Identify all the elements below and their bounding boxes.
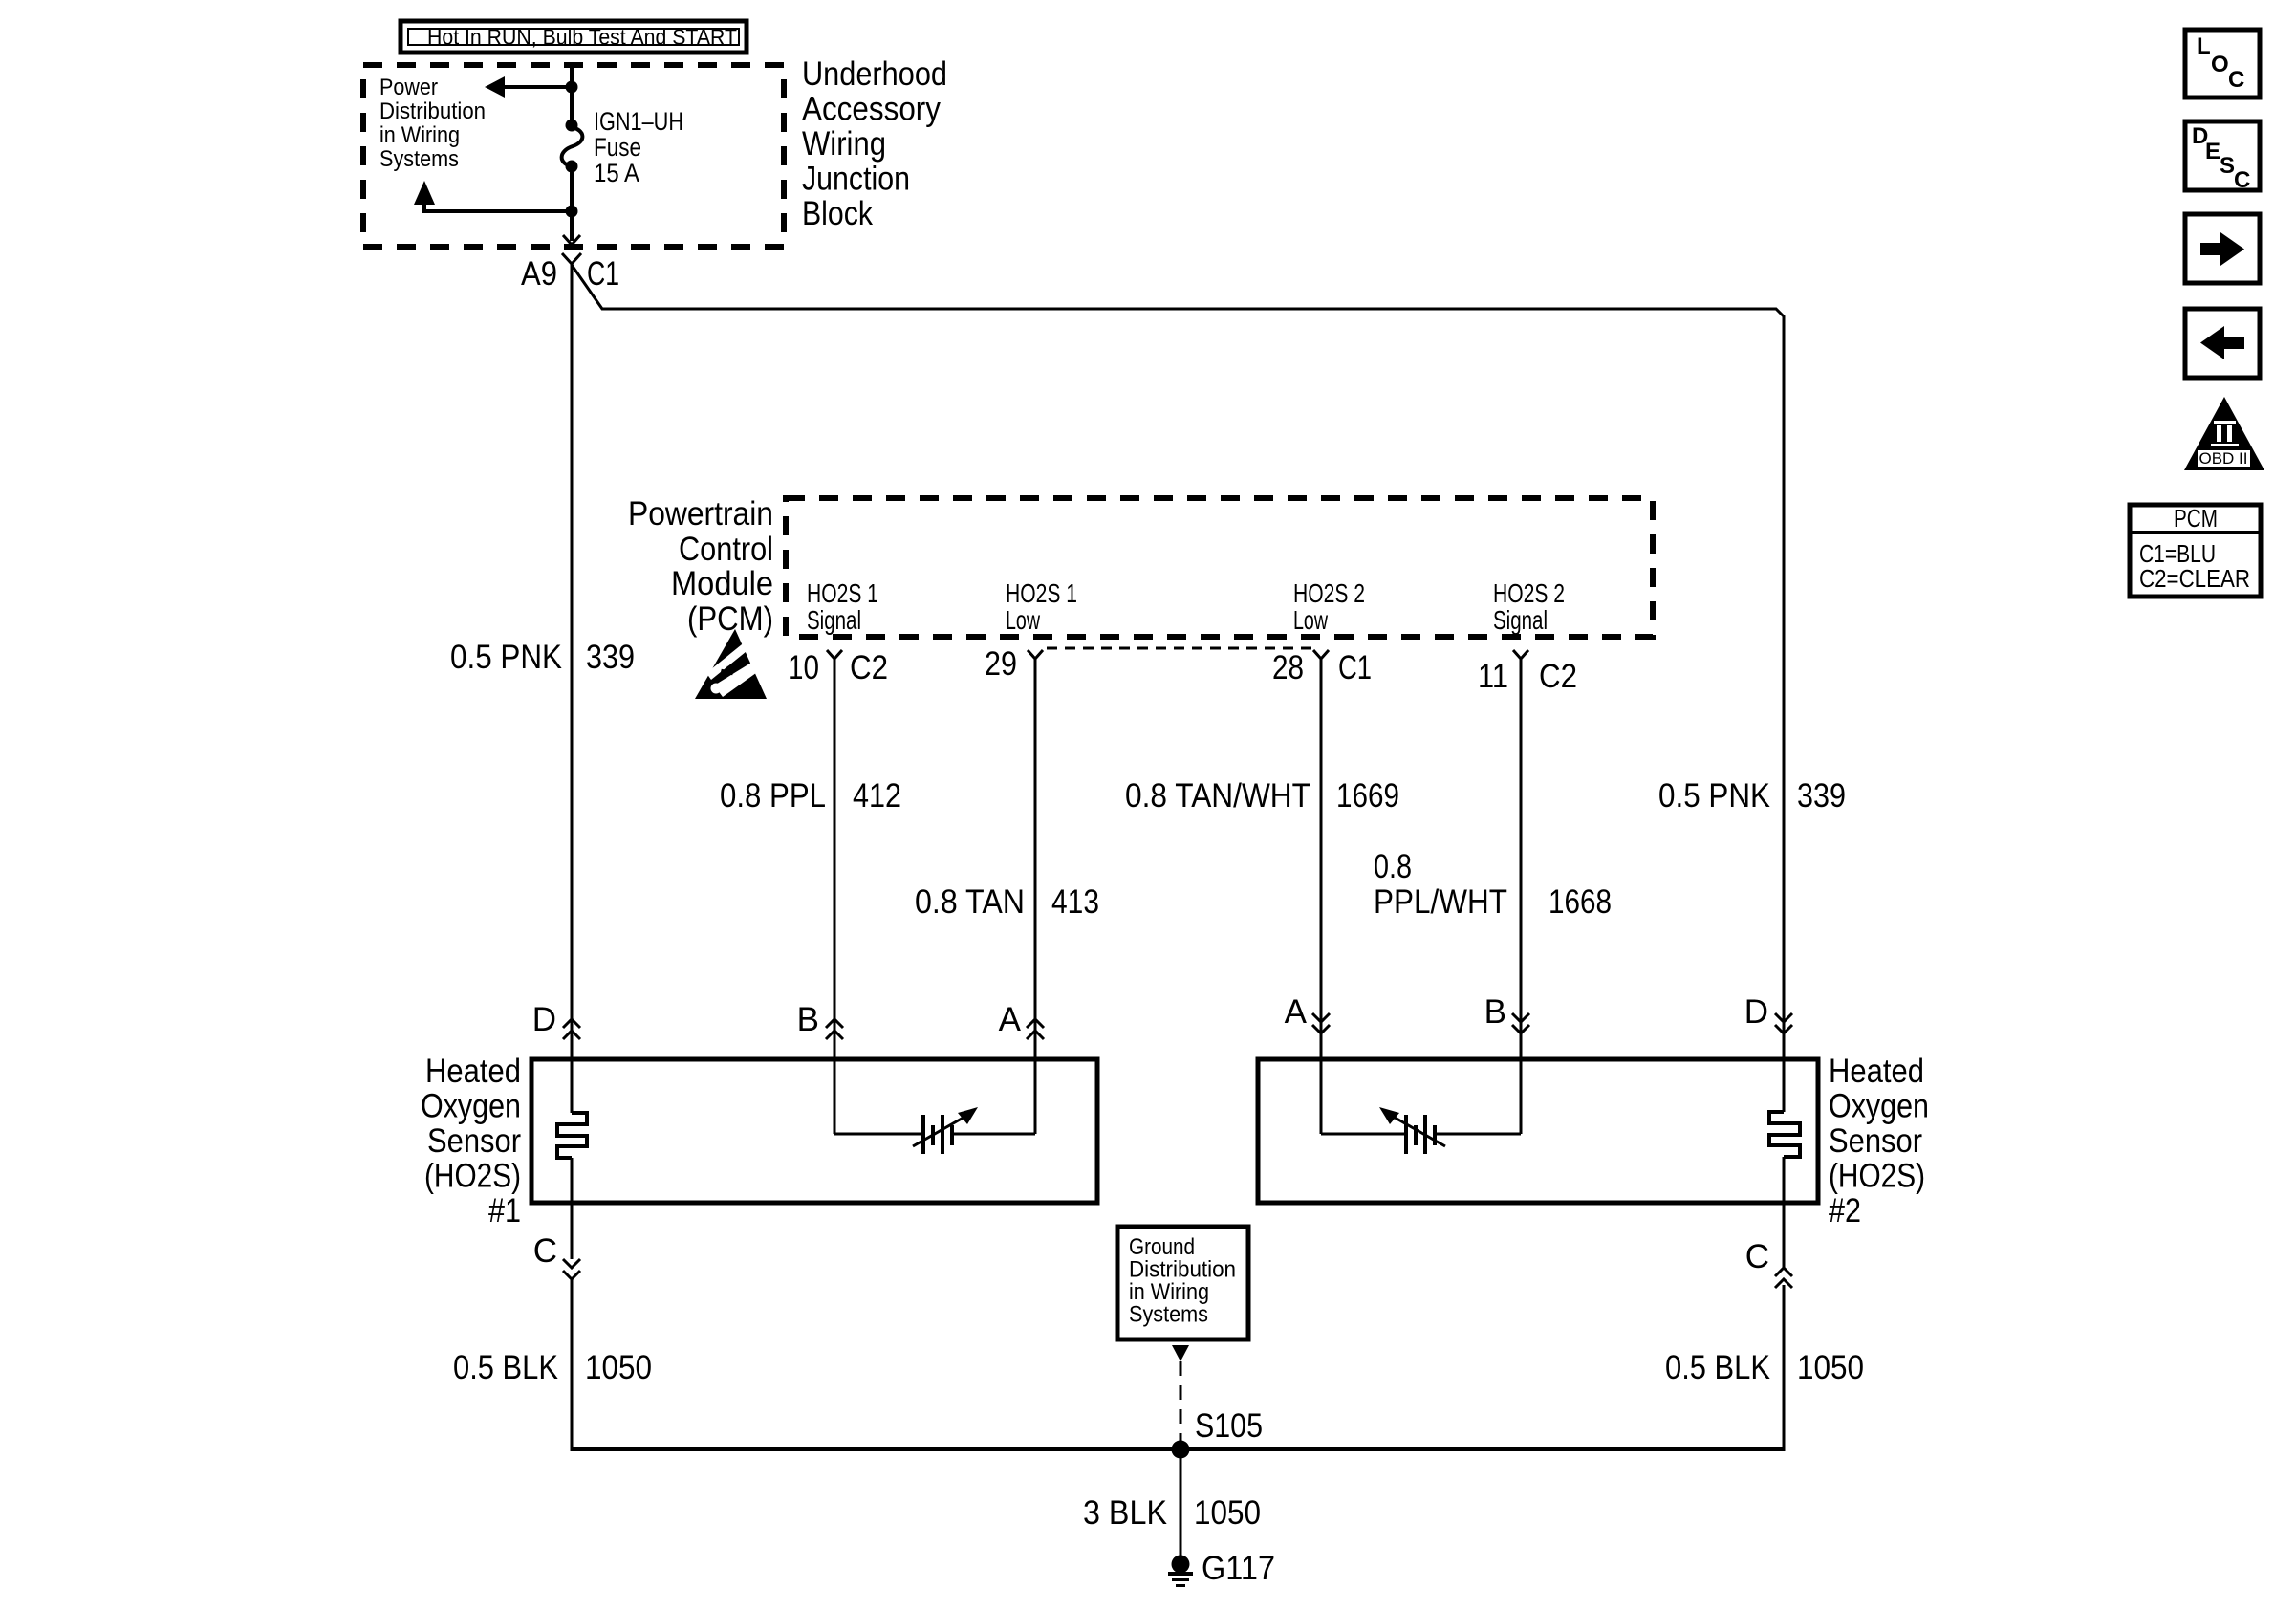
svg-text:PCM: PCM xyxy=(2174,504,2218,533)
svg-text:S105: S105 xyxy=(1195,1407,1263,1445)
svg-text:1050: 1050 xyxy=(585,1349,652,1386)
wire: S105 to G117 xyxy=(1180,1449,1182,1558)
svg-text:D: D xyxy=(532,1001,556,1038)
label: 0.8 TAN/WHT 1669 xyxy=(1125,777,1399,815)
svg-text:PPL/WHT: PPL/WHT xyxy=(1374,883,1507,921)
svg-text:G117: G117 xyxy=(1202,1550,1275,1587)
svg-text:Module: Module xyxy=(671,565,773,602)
label: 0.8 TAN 413 xyxy=(915,883,1099,921)
sidebar LOC icon xyxy=(2185,30,2260,98)
svg-text:E: E xyxy=(2205,139,2220,164)
PCM pin function labels xyxy=(807,578,1565,635)
svg-text:413: 413 xyxy=(1051,883,1099,921)
svg-text:Junction: Junction xyxy=(802,161,910,198)
connector C below box1 (chevrons down) xyxy=(533,1232,580,1451)
svg-text:0.8: 0.8 xyxy=(1374,848,1412,885)
label: IGN1-UH Fuse 15 A xyxy=(594,107,683,187)
svg-text:0.8 PPL: 0.8 PPL xyxy=(720,777,826,815)
svg-text:D: D xyxy=(1744,993,1768,1031)
connector chevrons into HO2S#1 (up) with letters D B A xyxy=(532,1001,1044,1039)
label: 0.5 PNK 339 (right) xyxy=(1658,777,1846,815)
label: Power Distribution in Wiring Systems xyxy=(379,75,486,172)
ESD sensitive device symbol xyxy=(695,629,773,699)
svg-text:Powertrain: Powertrain xyxy=(628,495,773,533)
pin 10 connector Y xyxy=(788,649,888,686)
svg-text:Sensor: Sensor xyxy=(1829,1122,1922,1160)
svg-text:C: C xyxy=(2228,67,2244,93)
svg-text:1668: 1668 xyxy=(1549,883,1612,921)
svg-text:15 A: 15 A xyxy=(594,159,639,187)
heater element in HO2S#1 xyxy=(557,1113,587,1158)
PCM dashed box xyxy=(786,498,1653,637)
wire: HO2S2 signal (pin 11) xyxy=(1520,659,1523,1134)
svg-text:0.5 PNK: 0.5 PNK xyxy=(1658,777,1770,815)
svg-text:A: A xyxy=(999,1001,1022,1038)
svg-text:C2: C2 xyxy=(850,649,888,686)
svg-text:Wiring: Wiring xyxy=(802,125,886,163)
svg-text:OBD II: OBD II xyxy=(2199,449,2247,468)
OBD II triangle icon xyxy=(2184,397,2264,470)
svg-text:C2: C2 xyxy=(1539,658,1577,695)
arrowhead exiting block xyxy=(563,235,580,245)
svg-text:B: B xyxy=(1484,993,1506,1031)
label: Underhood Accessory Wiring Junction Block xyxy=(802,55,947,232)
svg-text:Signal: Signal xyxy=(807,605,861,635)
svg-text:28: 28 xyxy=(1272,649,1304,686)
svg-text:HO2S 2: HO2S 2 xyxy=(1493,578,1565,608)
svg-text:Power: Power xyxy=(379,75,438,100)
svg-text:L: L xyxy=(2197,33,2211,59)
heater element in HO2S#2 xyxy=(1769,1112,1800,1157)
splice S105 xyxy=(1172,1407,1264,1459)
junction block dashed box xyxy=(363,65,784,247)
svg-text:Systems: Systems xyxy=(379,146,459,172)
svg-text:HO2S 2: HO2S 2 xyxy=(1293,578,1365,608)
svg-text:Signal: Signal xyxy=(1493,605,1548,635)
svg-text:339: 339 xyxy=(586,639,635,676)
wire: branch arrow up to Power Distribution (up arrow) xyxy=(414,181,578,218)
svg-text:#2: #2 xyxy=(1829,1192,1861,1229)
svg-text:O: O xyxy=(2211,52,2229,77)
svg-text:C1: C1 xyxy=(587,255,619,293)
svg-text:10: 10 xyxy=(788,649,819,686)
svg-text:Systems: Systems xyxy=(1129,1302,1208,1328)
svg-text:Control: Control xyxy=(679,531,773,568)
wire: 0.5 PNK 339 left vertical (A9 to HO2S#1 heater) xyxy=(571,264,574,1113)
fuse IGN1-UH 15 A xyxy=(562,120,583,173)
svg-text:Fuse: Fuse xyxy=(594,133,641,162)
svg-text:0.5 PNK: 0.5 PNK xyxy=(450,639,562,676)
svg-text:C2=CLEAR: C2=CLEAR xyxy=(2139,564,2250,593)
svg-text:3 BLK: 3 BLK xyxy=(1083,1494,1167,1532)
svg-text:Underhood: Underhood xyxy=(802,55,947,93)
dashed connector line between pin 29 and pin 28 xyxy=(1047,647,1311,650)
label: 0.8 PPL 412 xyxy=(720,777,901,815)
svg-text:0.8 TAN: 0.8 TAN xyxy=(915,883,1025,921)
wire: HO2S1 low (pin 29) xyxy=(1034,659,1037,1134)
svg-text:0.8 TAN/WHT: 0.8 TAN/WHT xyxy=(1125,777,1310,815)
sensor element (variable cell) in HO2S#1 xyxy=(834,1107,1035,1154)
svg-text:A: A xyxy=(1285,993,1308,1031)
connector C below box2 (chevrons up) xyxy=(1745,1238,1792,1451)
svg-text:#1: #1 xyxy=(488,1192,521,1229)
svg-text:C: C xyxy=(1745,1238,1769,1275)
arrow from Ground Distribution box xyxy=(1172,1345,1189,1361)
svg-text:HO2S 1: HO2S 1 xyxy=(1006,578,1077,608)
wire: fuse output down xyxy=(570,166,574,241)
wire: branch arrow to Power Distribution (left arrow) xyxy=(485,76,578,98)
svg-text:0.5 BLK: 0.5 BLK xyxy=(1665,1349,1770,1386)
wire: feed from Hot In RUN into block xyxy=(570,66,574,125)
label: Powertrain Control Module (PCM) xyxy=(628,495,773,638)
svg-text:Accessory: Accessory xyxy=(802,91,941,128)
svg-text:29: 29 xyxy=(985,645,1017,683)
svg-text:1050: 1050 xyxy=(1194,1494,1261,1532)
svg-text:0.5 BLK: 0.5 BLK xyxy=(453,1349,558,1386)
svg-text:Hot In RUN, Bulb Test And STAR: Hot In RUN, Bulb Test And START xyxy=(427,25,737,50)
Ground Distribution box xyxy=(1117,1227,1248,1339)
svg-text:1050: 1050 xyxy=(1797,1349,1864,1386)
label: 0.8 PPL/WHT 1668 xyxy=(1374,848,1612,921)
sidebar forward arrow icon xyxy=(2185,214,2260,283)
ground G117 xyxy=(1168,1550,1275,1587)
ground bus wire xyxy=(572,1447,1784,1451)
label: Heated Oxygen Sensor (HO2S) #2 xyxy=(1829,1053,1929,1229)
HO2S #2 box xyxy=(1258,1059,1818,1203)
svg-text:C: C xyxy=(2234,167,2250,193)
svg-text:Block: Block xyxy=(802,195,873,232)
connector chevrons into HO2S#2 (down) with letters A B D xyxy=(1285,993,1792,1033)
svg-text:C1: C1 xyxy=(1338,649,1372,686)
sidebar back arrow icon xyxy=(2185,309,2260,378)
wire: HO2S2 low (pin 28) xyxy=(1320,659,1323,1134)
PCM connector legend box xyxy=(2130,504,2261,597)
pin 28 connector Y xyxy=(1272,649,1372,686)
HO2S #1 box xyxy=(531,1059,1097,1203)
svg-text:Heated: Heated xyxy=(425,1053,521,1090)
label box "Hot In RUN, Bulb Test And START" xyxy=(401,21,747,53)
svg-text:C: C xyxy=(533,1232,557,1270)
wire: heater out to C (box2) xyxy=(1783,1157,1786,1268)
label: 3 BLK 1050 xyxy=(1083,1494,1261,1532)
svg-text:Oxygen: Oxygen xyxy=(1829,1088,1929,1125)
svg-text:Heated: Heated xyxy=(1829,1053,1924,1090)
svg-text:B: B xyxy=(797,1001,819,1038)
label: Heated Oxygen Sensor (HO2S) #1 xyxy=(421,1053,521,1229)
svg-text:(HO2S): (HO2S) xyxy=(424,1158,521,1195)
svg-text:Oxygen: Oxygen xyxy=(421,1088,521,1125)
label: 0.5 BLK 1050 (left) xyxy=(453,1349,652,1386)
svg-text:Distribution: Distribution xyxy=(379,98,486,124)
wire: branch to HO2S#2 heater (diagonal + horizontal + right vertical) xyxy=(572,265,1784,1112)
svg-text:339: 339 xyxy=(1797,777,1846,815)
svg-text:IGN1–UH: IGN1–UH xyxy=(594,107,683,136)
svg-text:412: 412 xyxy=(853,777,901,815)
svg-text:in Wiring: in Wiring xyxy=(379,122,460,148)
svg-text:Low: Low xyxy=(1006,605,1041,635)
label: 0.5 BLK 1050 (right) xyxy=(1665,1349,1864,1386)
wire: heater out to C (box1) xyxy=(571,1158,574,1259)
svg-text:A9: A9 xyxy=(521,255,557,293)
svg-text:11: 11 xyxy=(1478,658,1508,695)
sidebar DESC icon xyxy=(2185,121,2260,193)
wire: HO2S1 signal (pin 10) xyxy=(834,659,836,1134)
sensor element (variable cell) in HO2S#2 xyxy=(1321,1107,1521,1154)
svg-text:HO2S 1: HO2S 1 xyxy=(807,578,878,608)
dashed wire to splice S105 xyxy=(1180,1361,1182,1446)
svg-text:(PCM): (PCM) xyxy=(687,600,773,638)
pin 11 connector Y xyxy=(1478,650,1577,695)
svg-text:Sensor: Sensor xyxy=(427,1122,521,1160)
pin 29 connector Y xyxy=(985,645,1043,683)
connector A9/C1 xyxy=(521,253,619,293)
svg-text:Low: Low xyxy=(1293,605,1329,635)
svg-text:1669: 1669 xyxy=(1336,777,1399,815)
svg-text:(HO2S): (HO2S) xyxy=(1829,1158,1925,1195)
label: 0.5 PNK 339 (top left) xyxy=(450,639,635,676)
svg-text:S: S xyxy=(2220,153,2235,179)
